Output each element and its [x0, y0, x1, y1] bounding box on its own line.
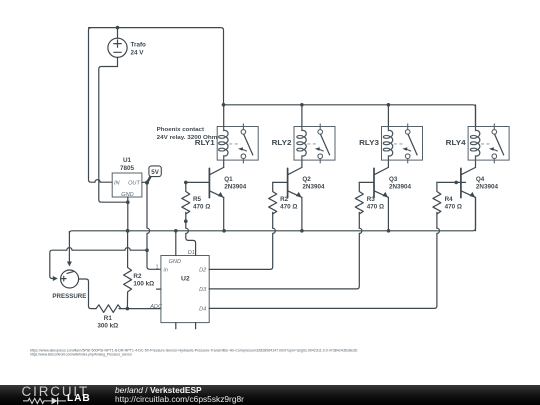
svg-text:RLY2: RLY2	[272, 140, 292, 147]
relay RLY3 blade	[408, 134, 417, 155]
svg-text:Phoenix contact: Phoenix contact	[157, 127, 204, 133]
wire Trafo minus to U1 GND node	[99, 67, 128, 203]
node U2 GND on ground rail	[174, 229, 178, 233]
footer url line	[115, 395, 244, 404]
wire left drop to U1 IN with hop	[89, 28, 113, 183]
svg-text:Q1: Q1	[224, 176, 233, 183]
arrow Q4 emitter	[470, 192, 476, 197]
node R2/GND on ground rail	[126, 229, 130, 233]
relay RLY1 blade	[244, 134, 253, 155]
node ground rail / R2	[126, 229, 130, 233]
svg-text:5V: 5V	[151, 169, 159, 176]
svg-text:RLY4: RLY4	[446, 140, 466, 147]
relay RLY3 contacts	[405, 124, 410, 164]
svg-text:Q2: Q2	[302, 176, 311, 183]
wire ground rail	[69, 197, 475, 233]
svg-text:R2: R2	[133, 273, 142, 280]
svg-text:R5: R5	[193, 196, 202, 203]
resistor R2 470	[269, 182, 277, 214]
relay RLY4 box	[468, 127, 509, 161]
transistor Q3 2N3904	[374, 160, 388, 231]
svg-text:Trafo: Trafo	[131, 42, 147, 49]
resistor R1 300k zigzag	[96, 305, 121, 313]
logo resistor-diode glyph	[0, 385, 70, 405]
arrow into sensor left	[53, 276, 58, 281]
svg-text:PRESSURE: PRESSURE	[52, 293, 86, 300]
wire U2 GND pin up to rail	[175, 231, 177, 256]
svg-text:D2: D2	[199, 267, 207, 273]
svg-text:Q4: Q4	[476, 176, 485, 183]
regulator U1 7805 box	[112, 173, 142, 197]
node RLY3 tap	[387, 103, 391, 107]
relay RLY4 actuation dashes	[481, 143, 491, 145]
svg-text:7805: 7805	[120, 165, 135, 172]
relay RLY4 arrow	[492, 149, 498, 151]
node Q3 emitter on ground rail	[387, 229, 391, 233]
resistor R3 470	[355, 182, 363, 214]
svg-text:R1: R1	[104, 315, 113, 322]
wire U1 OUT	[142, 181, 147, 183]
resistor R4 470	[433, 182, 441, 214]
svg-text:24V relay. 3200 Ohm: 24V relay. 3200 Ohm	[157, 135, 218, 141]
svg-text:2N3904: 2N3904	[476, 184, 499, 191]
node U1 OUT	[145, 181, 149, 185]
relay RLY4 coil	[475, 105, 477, 127]
relay RLY2 arrow	[318, 149, 324, 151]
node RLY2 tap	[300, 103, 304, 107]
svg-text:100 kΩ: 100 kΩ	[133, 281, 154, 288]
node Q1 emitter on ground rail	[222, 229, 226, 233]
node Q2 emitter on ground rail	[300, 229, 304, 233]
svg-text:470 Ω: 470 Ω	[193, 204, 210, 211]
svg-text:470 Ω: 470 Ω	[367, 204, 384, 211]
relay RLY2 actuation dashes	[307, 143, 317, 145]
svg-text:R4: R4	[445, 196, 454, 203]
relay RLY1 box	[217, 127, 258, 161]
wire +24V relay rail	[224, 102, 476, 126]
relay RLY3 arrow	[405, 149, 411, 151]
relay RLY1 arrow	[241, 149, 247, 151]
transistor Q2 2N3904	[288, 160, 302, 231]
svg-text:1: 1	[156, 264, 159, 270]
footer bar	[0, 385, 540, 405]
wire 5V to pressure sensor supply, hops R2 wire and sensor drop	[50, 248, 147, 279]
svg-text:470 Ω: 470 Ω	[280, 204, 297, 211]
wire sensor output to R1	[79, 279, 96, 309]
logo LAB	[67, 394, 91, 403]
svg-text:IN: IN	[114, 180, 121, 186]
resistor R2 100k	[124, 231, 132, 309]
stub U2 bottom pins	[175, 323, 177, 329]
relay RLY4 contacts	[492, 124, 497, 164]
wire base channel 3	[359, 181, 374, 183]
svg-text:Q3: Q3	[389, 176, 398, 183]
transistor Q4 2N3904	[461, 160, 476, 231]
stub U2 left mid pin	[157, 288, 161, 290]
relay RLY1 coil	[223, 105, 225, 127]
svg-text:D3: D3	[199, 287, 207, 293]
relay RLY4 blade	[495, 134, 504, 155]
arrow Q1 emitter	[218, 192, 224, 197]
voltage source V1 Trafo	[108, 28, 127, 67]
wire base channel 4	[437, 181, 466, 183]
relay RLY2 coil	[301, 105, 303, 127]
resistor R5 470	[182, 182, 190, 214]
node +24V/RLY1	[222, 103, 226, 107]
pressure sensor source	[61, 270, 79, 288]
wire U1 GND down to ground rail	[127, 197, 129, 231]
arrow Q3 emitter	[382, 192, 388, 197]
svg-text:2N3904: 2N3904	[302, 184, 325, 191]
arrow into sensor top	[67, 262, 72, 267]
wire ADC node to U2	[127, 308, 160, 310]
svg-text:470 Ω: 470 Ω	[445, 204, 462, 211]
node 5V sensor supply tap	[145, 248, 149, 252]
relay RLY2 box	[294, 127, 335, 161]
node Q4 base	[454, 181, 458, 185]
relay RLY3 box	[382, 127, 423, 161]
relay RLY2 blade	[321, 134, 330, 155]
svg-text:24 V: 24 V	[131, 50, 145, 57]
wire 5V down to U2 in, hops ground rail	[147, 183, 161, 270]
wire ground rail to pressure sensor top	[68, 232, 70, 262]
arrow Q2 emitter	[296, 192, 302, 197]
node Trafo plus tap	[116, 26, 120, 30]
svg-text:300 kΩ: 300 kΩ	[97, 323, 118, 330]
svg-text:2N3904: 2N3904	[389, 184, 412, 191]
relay RLY2 contacts	[318, 124, 323, 164]
svg-text:OUT: OUT	[128, 180, 140, 186]
wire base channel 2	[273, 181, 288, 183]
wire D2 to channel 2, hops ground rail	[209, 228, 275, 269]
wire D4 to channel 4, hops ground rail	[209, 228, 439, 308]
footer author line	[115, 386, 202, 395]
wire U2 D1 pin up-left, hops ground rail	[186, 221, 196, 255]
svg-text:GND: GND	[169, 259, 181, 265]
svg-text:D1: D1	[188, 250, 195, 256]
node R5 bottom	[184, 219, 188, 223]
IC U2 box	[161, 256, 209, 323]
node R5 top	[184, 181, 188, 185]
svg-text:2N3904: 2N3904	[224, 184, 247, 191]
relay RLY1 contacts	[241, 124, 246, 164]
relay RLY3 actuation dashes	[394, 143, 405, 145]
svg-text:RLY3: RLY3	[359, 140, 379, 147]
node ADC divider	[126, 307, 130, 311]
logo CIRCUIT	[22, 385, 90, 398]
node U1 GND / Trafo return	[126, 200, 130, 204]
svg-text:ADC: ADC	[149, 304, 163, 310]
wire base channel 1	[186, 181, 210, 183]
net flag 5V	[147, 166, 161, 183]
svg-text:in: in	[164, 268, 168, 274]
relay RLY3 coil	[387, 105, 389, 127]
transistor Q1 2N3904	[209, 160, 223, 231]
svg-text:https://www.letscontrolit.com/: https://www.letscontrolit.com/wiki/index…	[30, 352, 133, 356]
wire D3 to channel 3, hops ground rail	[209, 228, 362, 289]
relay RLY1 actuation dashes	[229, 143, 240, 145]
svg-text:U1: U1	[123, 157, 132, 164]
wire +24V top rail	[89, 28, 224, 103]
svg-text:U2: U2	[181, 275, 190, 282]
svg-text:D4: D4	[199, 306, 206, 312]
